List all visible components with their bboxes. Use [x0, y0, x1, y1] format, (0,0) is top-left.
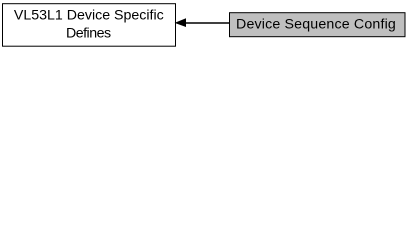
svg-text:VL53L1 Device Specific: VL53L1 Device Specific	[14, 7, 164, 23]
node box: VL53L1 Device Specific Defines (linked group, white fill)	[3, 4, 176, 47]
svg-text:Device Sequence Config: Device Sequence Config	[236, 17, 396, 33]
arrowhead of dependency edge (points at left node)	[176, 19, 186, 26]
svg-text:Defines: Defines	[66, 26, 111, 42]
wire: edge shaft from Device Sequence Config to arrowhead	[185, 22, 230, 24]
node box: Device Sequence Config (current group, grey75 fill)	[230, 13, 406, 37]
